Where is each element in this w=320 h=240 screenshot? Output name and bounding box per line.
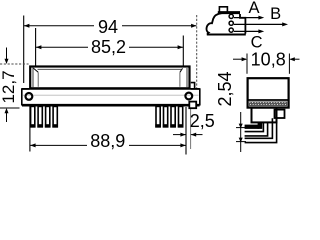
svg-text:2,5: 2,5 <box>190 111 215 131</box>
svg-text:A: A <box>248 0 259 17</box>
svg-text:10,8: 10,8 <box>251 50 286 70</box>
svg-text:12,7: 12,7 <box>0 70 18 103</box>
svg-text:94: 94 <box>98 17 118 37</box>
svg-text:88,9: 88,9 <box>90 131 125 151</box>
svg-text:85,2: 85,2 <box>91 37 126 57</box>
svg-text:B: B <box>270 5 281 23</box>
svg-text:2,54: 2,54 <box>215 71 235 106</box>
